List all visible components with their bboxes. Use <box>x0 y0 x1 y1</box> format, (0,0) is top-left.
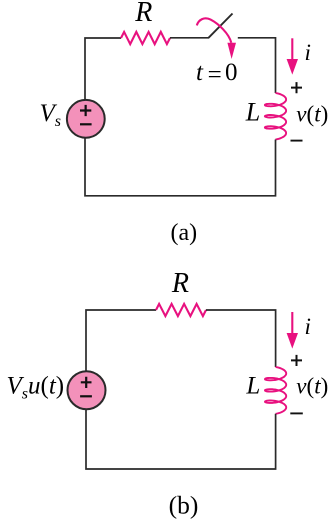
current arrow i (circuit a) <box>291 38 293 60</box>
svg-text:i: i <box>305 314 311 339</box>
svg-text:Vs: Vs <box>40 100 62 130</box>
minus sign inside source (a) <box>80 123 92 125</box>
switch blade (open switch, circuit a) <box>209 14 233 38</box>
svg-text:t=0: t=0 <box>196 59 238 88</box>
plus sign inside source (b) <box>81 377 92 388</box>
switch arrowhead <box>227 43 236 59</box>
switch closing-action arrow arc (circuit a) <box>197 18 232 42</box>
current arrow i (circuit b) <box>291 312 293 334</box>
svg-text:(b): (b) <box>169 491 199 520</box>
svg-text:R: R <box>171 268 189 299</box>
svg-text:v(t): v(t) <box>296 374 328 399</box>
svg-text:v(t): v(t) <box>296 102 328 127</box>
plus polarity mark (inductor a) <box>291 82 302 93</box>
svg-text:L: L <box>245 98 260 127</box>
inductor L coil (circuit a) <box>265 93 286 140</box>
wire: right side below inductor + bottom wire (a) <box>85 138 276 196</box>
resistor R (circuit a) <box>121 32 170 44</box>
wire: right side below inductor + bottom wire (b) <box>86 409 276 469</box>
wire: resistor to switch left contact (a) <box>170 37 209 39</box>
plus polarity mark (inductor b) <box>291 355 302 366</box>
svg-text:L: L <box>245 372 260 399</box>
plus sign inside source (a) <box>80 105 91 116</box>
minus polarity mark (inductor a) <box>291 140 303 142</box>
svg-text:(a): (a) <box>170 220 197 246</box>
wire: circuit (a) left+top-left segment <box>85 38 121 100</box>
wire: resistor to top-right corner (b) <box>206 310 276 367</box>
wire: circuit (b) left+top-left segment <box>86 310 156 371</box>
minus polarity mark (inductor b) <box>290 412 303 414</box>
svg-text:i: i <box>305 40 311 65</box>
wire: switch right contact to top-right corner (a) <box>238 38 276 93</box>
voltage source circle (circuit b) <box>68 371 106 409</box>
svg-text:Vsu(t): Vsu(t) <box>7 373 65 403</box>
minus sign inside source (b) <box>80 395 92 397</box>
resistor R (circuit b) <box>156 304 206 316</box>
inductor L coil (circuit b) <box>265 367 286 414</box>
voltage source Vs circle (circuit a) <box>67 100 105 138</box>
svg-text:R: R <box>134 0 152 28</box>
